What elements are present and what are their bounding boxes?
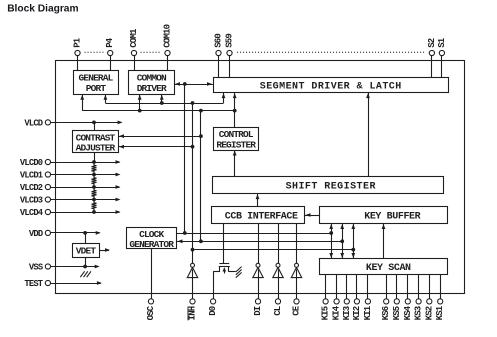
pin VLCD0 xyxy=(20,158,51,168)
svg-text:S1: S1 xyxy=(437,37,447,48)
block GENERAL PORT xyxy=(74,71,119,95)
wire VLCD0 line xyxy=(51,160,121,164)
svg-text:COMMON: COMMON xyxy=(137,72,167,83)
block CONTRAST ADJUSTER xyxy=(73,131,119,154)
svg-text:D0: D0 xyxy=(208,306,218,316)
wire COMMON DRIVER to SEGMENT DRIVER (bidirectional) xyxy=(174,82,213,86)
wire CONTRAST ADJUSTER to VLCD0 xyxy=(94,153,96,162)
wire CCB INTERFACE to D0 transistor xyxy=(223,224,225,264)
wire SHIFT REGISTER to SEGMENT DRIVER xyxy=(366,93,370,176)
resistor ladder R2 xyxy=(92,175,97,188)
pin INH (bottom) xyxy=(188,299,198,321)
pin P1 (top) xyxy=(73,37,83,71)
svg-text:SEGMENT DRIVER & LATCH: SEGMENT DRIVER & LATCH xyxy=(260,81,402,92)
pin KS4 (bottom) xyxy=(403,274,413,320)
wire CCB INTERFACE to SHIFT REGISTER xyxy=(256,194,260,207)
wire TEST line xyxy=(51,281,102,285)
block SEGMENT DRIVER &amp; LATCH xyxy=(214,78,449,93)
wire VLCD to CONTRAST ADJUSTER xyxy=(94,122,96,130)
svg-text:TEST: TEST xyxy=(24,279,43,289)
wire CONTROL REGISTER to SEGMENT DRIVER xyxy=(233,93,237,128)
svg-text:DI: DI xyxy=(253,306,263,316)
wire VDET output xyxy=(99,248,110,252)
pin DI (bottom) xyxy=(253,299,263,316)
wire D0 to pin xyxy=(213,272,215,299)
svg-text:P1: P1 xyxy=(73,37,83,48)
wire KEY SCAN to KEY BUFFER xyxy=(382,224,386,259)
pin KS1 (bottom) xyxy=(435,274,445,320)
pin S1 (top) xyxy=(437,37,447,77)
pin KI4 (bottom) xyxy=(332,274,342,320)
wire INH riser xyxy=(192,278,194,299)
svg-text:KEY SCAN: KEY SCAN xyxy=(366,263,411,274)
pin KI5 (bottom) xyxy=(321,274,331,320)
pin VLCD1 xyxy=(20,170,51,180)
svg-text:PORT: PORT xyxy=(86,83,107,94)
wire bus V3 xyxy=(199,109,203,244)
pin KS6 (bottom) xyxy=(381,274,391,320)
pin KI3 (bottom) xyxy=(342,274,352,320)
svg-text:INH: INH xyxy=(188,306,198,320)
pin KS3 (bottom) xyxy=(414,274,424,320)
block CLOCK GENERATOR xyxy=(127,228,177,251)
svg-text:CCB INTERFACE: CCB INTERFACE xyxy=(225,212,298,223)
svg-text:VLCD4: VLCD4 xyxy=(20,208,44,218)
pin VLCD4 xyxy=(20,208,51,218)
pin VLCD xyxy=(24,118,50,128)
wire CL vertical xyxy=(278,224,280,299)
svg-text:KEY BUFFER: KEY BUFFER xyxy=(364,212,420,223)
block KEY BUFFER xyxy=(320,207,448,224)
dotted separator P1-P4 xyxy=(85,51,104,53)
svg-text:KI5: KI5 xyxy=(321,306,331,320)
svg-text:COM1: COM1 xyxy=(129,28,139,48)
svg-text:COM10: COM10 xyxy=(163,24,173,47)
resistor ladder R3 xyxy=(92,187,97,200)
transistor D0 output driver xyxy=(213,264,236,274)
wire VLCD3 line xyxy=(51,198,121,202)
svg-text:GENERAL: GENERAL xyxy=(79,72,114,83)
svg-text:KS4: KS4 xyxy=(403,305,413,320)
svg-text:VDET: VDET xyxy=(76,245,97,256)
svg-text:Block Diagram: Block Diagram xyxy=(7,4,78,15)
pin KI2 (bottom) xyxy=(352,274,362,320)
pin S60 (top) xyxy=(214,34,224,77)
pin VDD xyxy=(29,229,51,239)
wire bus V2 (INH distribution) xyxy=(191,101,195,263)
svg-text:S59: S59 xyxy=(225,34,235,48)
wire clock output line Ha xyxy=(177,231,334,235)
wire control to CONTRAST ADJUSTER lower xyxy=(118,145,193,149)
pin D0 (bottom) xyxy=(208,299,218,316)
svg-text:REGISTER: REGISTER xyxy=(216,140,256,151)
ground symbol xyxy=(80,271,91,277)
pin VLCD2 xyxy=(20,183,51,193)
block COMMON DRIVER xyxy=(129,71,175,95)
svg-text:KS3: KS3 xyxy=(414,306,424,320)
svg-text:S2: S2 xyxy=(427,38,437,48)
pin COM10 (top) xyxy=(163,24,173,70)
svg-text:VDD: VDD xyxy=(29,229,43,239)
pin OSC (bottom) xyxy=(146,299,156,321)
wire line Hc xyxy=(193,248,356,252)
wire VDD line xyxy=(51,231,101,235)
block SHIFT REGISTER xyxy=(213,177,444,194)
wire VLCD4 line xyxy=(51,210,121,214)
svg-text:KS5: KS5 xyxy=(392,306,402,320)
wire VLCD line xyxy=(51,121,123,125)
svg-text:VLCD2: VLCD2 xyxy=(20,183,43,193)
pin COM1 (top) xyxy=(129,28,139,71)
buffer CE inverter xyxy=(291,263,301,277)
svg-text:P4: P4 xyxy=(105,37,115,48)
svg-text:KS6: KS6 xyxy=(381,306,391,320)
svg-text:ADJUSTER: ADJUSTER xyxy=(76,143,116,154)
svg-text:VLCD0: VLCD0 xyxy=(20,158,43,168)
wire clock input line Hb xyxy=(177,239,345,243)
svg-text:KI2: KI2 xyxy=(352,306,362,320)
svg-text:CONTROL: CONTROL xyxy=(219,129,254,140)
pin KI1 (bottom) xyxy=(363,274,373,320)
svg-text:KS2: KS2 xyxy=(424,306,434,320)
pin P4 (top) xyxy=(105,37,115,71)
block CONTROL REGISTER xyxy=(214,128,259,151)
svg-text:KI3: KI3 xyxy=(342,306,352,320)
wire VSS line xyxy=(51,265,100,269)
svg-text:KI4: KI4 xyxy=(332,305,342,320)
pin KS5 (bottom) xyxy=(392,274,402,320)
svg-text:DRIVER: DRIVER xyxy=(137,83,167,94)
wire H1 feedback to GENERAL PORT / COMMON DRIVER / SEGMENT DRIVER xyxy=(104,93,226,105)
pin VSS xyxy=(29,262,51,272)
pin VLCD3 xyxy=(20,195,51,205)
wire bus V1 (from common/segment line down to clock output line) xyxy=(184,84,186,233)
wire KEY BUFFER-KEY SCAN column 3 (bidirectional) xyxy=(351,224,355,259)
wire control to CONTRAST ADJUSTER upper xyxy=(118,134,201,138)
block CCB INTERFACE xyxy=(212,207,305,224)
wire CE vertical xyxy=(296,224,298,299)
pin CL (bottom) xyxy=(273,299,283,316)
svg-text:VSS: VSS xyxy=(29,262,43,272)
buffer INH inverter xyxy=(187,263,197,277)
svg-text:CE: CE xyxy=(292,305,302,316)
wire CLOCK GENERATOR to OSC pin xyxy=(151,249,153,299)
pin CE (bottom) xyxy=(292,299,302,316)
pin S59 (top) xyxy=(225,34,235,77)
pin KS2 (bottom) xyxy=(424,274,434,320)
svg-text:KI1: KI1 xyxy=(363,305,373,320)
wire SHIFT REGISTER to CONTROL REGISTER xyxy=(233,150,237,176)
block KEY SCAN xyxy=(320,259,448,275)
svg-text:VLCD: VLCD xyxy=(24,118,42,128)
resistor ladder R4 xyxy=(92,200,97,213)
svg-text:KS1: KS1 xyxy=(435,305,445,320)
wire VLCD2 line xyxy=(51,185,121,189)
wire VLCD1 line xyxy=(51,173,121,177)
svg-text:CL: CL xyxy=(273,306,283,316)
wire VDD to VDET xyxy=(85,233,87,243)
svg-text:VLCD3: VLCD3 xyxy=(20,195,43,205)
dotted separator S59-S2 xyxy=(237,51,426,53)
buffer DI inverter xyxy=(253,263,263,277)
svg-text:OSC: OSC xyxy=(146,305,156,320)
dotted separator COM1-COM10 xyxy=(141,51,161,53)
svg-text:S60: S60 xyxy=(214,34,224,48)
wire KEY BUFFER to CCB INTERFACE xyxy=(305,213,320,217)
svg-text:VLCD1: VLCD1 xyxy=(20,170,43,180)
substrate hatch at D0 transistor xyxy=(236,267,242,278)
wire DI vertical xyxy=(258,224,260,299)
wire KEY BUFFER-KEY SCAN column 2 (bidirectional) xyxy=(340,224,344,259)
block VDET xyxy=(73,244,100,258)
buffer CL inverter xyxy=(273,263,283,277)
resistor ladder R1 xyxy=(92,162,97,175)
pin S2 (top) xyxy=(427,38,437,77)
pin TEST xyxy=(24,279,50,289)
outer chip boundary xyxy=(56,61,465,294)
svg-text:SHIFT REGISTER: SHIFT REGISTER xyxy=(286,181,376,192)
wire H2 feedback to GENERAL PORT / COMMON DRIVER xyxy=(80,94,236,112)
wire VDET to VSS line xyxy=(83,257,87,268)
wire KEY BUFFER-KEY SCAN column 1 (bidirectional) xyxy=(329,224,333,259)
